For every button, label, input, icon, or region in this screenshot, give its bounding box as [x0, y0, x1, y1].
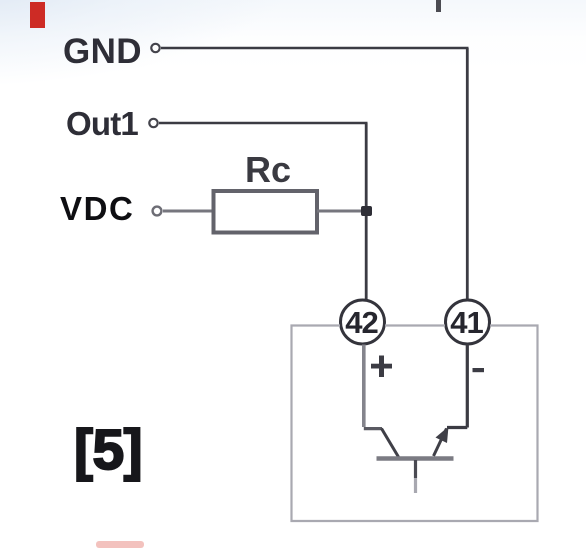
wire Out1 horizontal — [159, 122, 368, 125]
terminal 42 — [341, 300, 385, 344]
terminal Out1 — [149, 119, 157, 127]
transistor Q1 base lead — [414, 460, 417, 478]
transistor Q1 collector diagonal — [382, 429, 399, 458]
wire GND horizontal — [161, 47, 469, 50]
wire collector jog — [364, 427, 382, 430]
transistor Q1 base bar — [377, 456, 454, 461]
transistor Q1 emitter arrow — [436, 427, 449, 444]
label - (emitter) — [473, 368, 485, 372]
svg-text:Out1: Out1 — [66, 105, 138, 142]
terminal VDC — [153, 207, 162, 216]
wire emitter vertical from 41 — [466, 345, 469, 428]
wire collector vertical from 42 — [362, 345, 366, 428]
red page-edge mark — [30, 2, 45, 28]
svg-text:[5]: [5] — [74, 418, 142, 482]
wire Out1 vertical to terminal 42 — [365, 123, 368, 299]
svg-text:41: 41 — [450, 305, 483, 340]
label + (collector) — [371, 356, 392, 378]
terminal 41 — [446, 300, 490, 344]
terminal GND — [151, 44, 159, 52]
wire VDC to resistor — [163, 210, 213, 213]
svg-text:VDC: VDC — [60, 190, 134, 227]
device box U1 — [292, 326, 538, 522]
svg-text:42: 42 — [345, 305, 377, 340]
wire emitter jog — [447, 426, 467, 429]
dark tick mark top — [436, 0, 441, 12]
junction dot — [361, 206, 372, 216]
svg-text:Rc: Rc — [245, 149, 291, 190]
svg-text:GND: GND — [63, 32, 142, 71]
transistor Q1 emitter diagonal — [434, 429, 447, 457]
resistor Rc — [214, 191, 318, 233]
faint red smear bottom edge — [96, 541, 144, 548]
wire GND vertical to terminal 41 — [466, 48, 469, 299]
transistor Q1 base lead fade — [414, 478, 417, 493]
wire resistor to junction — [317, 210, 366, 213]
